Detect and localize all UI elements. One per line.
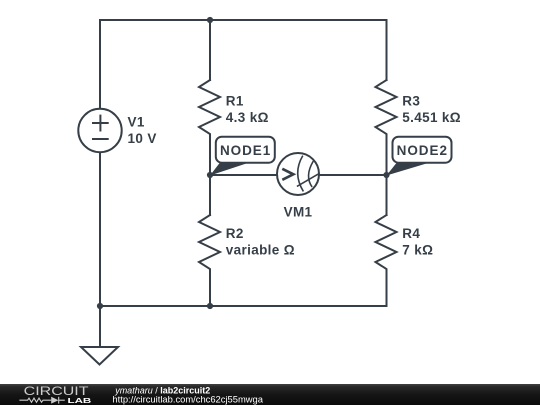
svg-text:LAB: LAB [68, 396, 92, 405]
svg-text:R4: R4 [402, 226, 420, 241]
svg-text:R1: R1 [226, 94, 244, 109]
svg-text:10 V: 10 V [128, 131, 157, 146]
svg-text:NODE1: NODE1 [220, 143, 271, 158]
svg-text:variable Ω: variable Ω [226, 242, 295, 257]
svg-text:R3: R3 [402, 94, 420, 109]
svg-text:http://circuitlab.com/chc62cj5: http://circuitlab.com/chc62cj55mwga [112, 393, 263, 404]
svg-text:R2: R2 [226, 226, 244, 241]
svg-text:VM1: VM1 [284, 204, 313, 219]
svg-text:7 kΩ: 7 kΩ [402, 242, 433, 257]
svg-text:4.3 kΩ: 4.3 kΩ [226, 110, 269, 125]
svg-text:5.451 kΩ: 5.451 kΩ [402, 110, 461, 125]
svg-text:V1: V1 [128, 115, 145, 130]
svg-text:NODE2: NODE2 [397, 143, 448, 158]
